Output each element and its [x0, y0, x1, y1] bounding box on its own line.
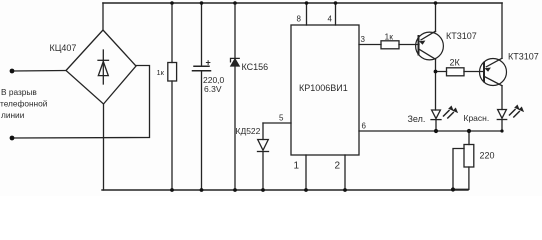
- wire bottom ground rail: [102, 189, 468, 191]
- wire bridge top to rail: [102, 3, 104, 30]
- svg-text:220: 220: [480, 151, 495, 161]
- label КТ3107 (Q1): [446, 31, 477, 41]
- svg-text:КД522: КД522: [236, 126, 261, 136]
- wire IC pin5 to diode VD3: [263, 122, 291, 124]
- svg-text:КЦ407: КЦ407: [50, 43, 77, 53]
- node top rail junctions: [170, 1, 437, 5]
- svg-text:КТ3107: КТ3107: [508, 52, 539, 62]
- wire IC pin4 to top rail: [335, 3, 337, 25]
- node R4 top junction: [467, 129, 471, 133]
- svg-text:4: 4: [328, 15, 333, 24]
- svg-text:Зел.: Зел.: [408, 114, 426, 124]
- wire tap from R4 left side to ground rail: [453, 149, 464, 191]
- transistor Q1 КТ3107: [416, 31, 444, 60]
- wire lower line terminal to bridge right corner: [12, 66, 150, 139]
- label 2К (R3): [450, 58, 461, 68]
- svg-text:1: 1: [294, 161, 300, 172]
- svg-text:В разрыв: В разрыв: [1, 87, 37, 97]
- node red LED bottom junction: [500, 129, 503, 132]
- node bottom rail junctions: [170, 187, 455, 192]
- svg-text:1к: 1к: [157, 68, 165, 77]
- label + (C1 polarity): [206, 58, 211, 68]
- wire Q1 collector down to green LED: [435, 59, 437, 110]
- label 220,0 (C1 value): [203, 75, 225, 85]
- svg-text:КР1006ВИ1: КР1006ВИ1: [299, 83, 348, 93]
- node terminal lower: [10, 136, 15, 141]
- resistor R3 2к horizontal: [447, 68, 465, 76]
- svg-text:3: 3: [361, 35, 366, 44]
- svg-text:1к: 1к: [385, 32, 394, 42]
- label pin 8: [297, 15, 302, 24]
- label pin 5: [279, 114, 284, 123]
- zener diode VD2 КС156: [231, 3, 240, 190]
- label pin 6: [362, 122, 367, 131]
- label КД522: [236, 126, 261, 136]
- svg-text:8: 8: [297, 15, 302, 24]
- bridge rectifier VD1 КЦ407 diamond: [66, 30, 136, 104]
- wire LED node to resistor R4 220: [468, 131, 470, 145]
- transistor Q2 КТ3107: [480, 58, 507, 85]
- node Q1 collector / R3 junction: [434, 70, 438, 74]
- svg-text:+: +: [206, 58, 211, 68]
- svg-text:2К: 2К: [450, 58, 461, 68]
- wire resistor R4 bottom to ground rail: [453, 167, 469, 189]
- label КТ3107 (Q2): [508, 52, 539, 62]
- label 220 (R4): [480, 151, 495, 161]
- svg-text:КС156: КС156: [242, 62, 269, 72]
- LED green light arrows: [444, 106, 459, 119]
- svg-text:6: 6: [362, 122, 367, 131]
- LED green HL1: [431, 110, 441, 131]
- label КР1006ВИ1: [299, 83, 348, 93]
- resistor R2 1к horizontal: [381, 41, 399, 49]
- wire IC pin8 to top rail: [306, 3, 308, 25]
- label pin 1: [294, 161, 300, 172]
- svg-text:2: 2: [335, 161, 341, 172]
- wire IC pin1 to ground rail: [305, 155, 307, 190]
- label 1к (R1): [157, 68, 165, 77]
- label 1к (R2): [385, 32, 394, 42]
- bridge inner diode symbol: [98, 50, 109, 84]
- label Зел.: [408, 114, 426, 124]
- node terminal upper: [10, 69, 15, 74]
- svg-text:телефонной: телефонной: [0, 99, 48, 109]
- svg-text:КТ3107: КТ3107: [446, 31, 477, 41]
- wire IC pin6 to LED node: [359, 130, 502, 132]
- label КС156: [242, 62, 269, 72]
- svg-text:5: 5: [279, 114, 284, 123]
- label Красн.: [464, 113, 490, 123]
- LED red light arrows: [510, 105, 525, 118]
- LED red HL2: [497, 110, 506, 132]
- svg-text:линии: линии: [1, 110, 25, 120]
- label pin 2: [335, 161, 341, 172]
- wire IC pin2 to ground rail: [344, 155, 346, 190]
- node green LED / pin6 wire junction: [434, 129, 438, 133]
- wire IC pin3 to resistor R2 and Q1 base: [359, 44, 419, 46]
- label pin 4: [328, 15, 333, 24]
- diode VD3 КД522: [258, 123, 269, 190]
- label В разрыв телефонной линии: [0, 87, 48, 120]
- label 6.3V (C1 voltage): [204, 84, 222, 94]
- wire upper line terminal to bridge left corner: [12, 70, 66, 73]
- wire top supply rail: [103, 2, 502, 4]
- label КЦ407: [50, 43, 77, 53]
- svg-text:6.3V: 6.3V: [204, 84, 222, 94]
- svg-text:Красн.: Красн.: [464, 113, 490, 123]
- op-amp/timer U1 КР1006ВИ1 box: [291, 25, 359, 155]
- resistor R4 220 vertical: [464, 145, 474, 168]
- wire Q2 collector to red LED: [501, 86, 503, 110]
- wire node Q1 collector to resistor R3 2к and Q2 base: [436, 71, 485, 73]
- wire Q2 emitter to top rail: [501, 3, 503, 58]
- wire Q1 emitter to top rail: [435, 3, 437, 32]
- label pin 3: [361, 35, 366, 44]
- capacitor C1 220,0мкФ 6.3V: [193, 3, 211, 190]
- wire bridge bottom to ground rail: [103, 104, 105, 190]
- resistor R1 1к vertical: [168, 3, 177, 190]
